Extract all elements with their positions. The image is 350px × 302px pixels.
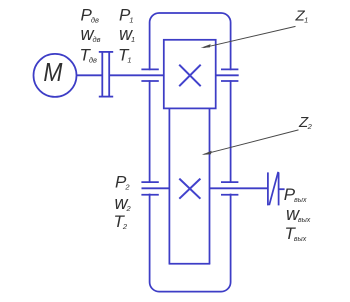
gear Z2 cross mark — [179, 179, 200, 199]
gearbox housing — [150, 13, 231, 292]
wire motor shaft — [77, 74, 103, 76]
label T output — [285, 224, 307, 243]
bearing output shaft left — [141, 182, 158, 195]
wire output shaft end stub — [279, 188, 285, 190]
label w output — [286, 204, 311, 224]
bearing bore gaps in housing walls — [147, 70, 235, 193]
label P output — [284, 185, 307, 204]
wire output shaft left stub — [142, 187, 170, 189]
svg-text:M: M — [43, 59, 63, 88]
label w1 — [119, 24, 135, 44]
wire input shaft right stub — [216, 74, 239, 76]
label P1 — [119, 6, 134, 25]
output break symbol — [268, 172, 279, 206]
label Z2 — [298, 114, 313, 131]
bearing input shaft right — [221, 69, 238, 81]
label w motor — [81, 24, 101, 44]
wire output shaft right — [210, 187, 268, 189]
label T2 — [114, 212, 128, 231]
bearing output shaft right — [221, 182, 238, 195]
gear Z2 rectangle — [169, 108, 211, 263]
gear Z1 rectangle — [164, 40, 216, 109]
leader line Z1 — [201, 26, 296, 48]
leader line Z2 — [202, 130, 299, 155]
label Z1 — [295, 7, 309, 24]
wire input shaft to gear Z1 — [109, 74, 164, 76]
motor M — [34, 54, 77, 97]
label T motor — [80, 46, 98, 65]
label T1 — [118, 46, 132, 65]
coupling — [99, 52, 113, 97]
bearing input shaft left — [141, 69, 158, 81]
gear Z1 cross mark — [179, 65, 201, 87]
label P2 — [115, 172, 130, 191]
label P motor — [81, 6, 99, 25]
label w2 — [115, 193, 132, 213]
